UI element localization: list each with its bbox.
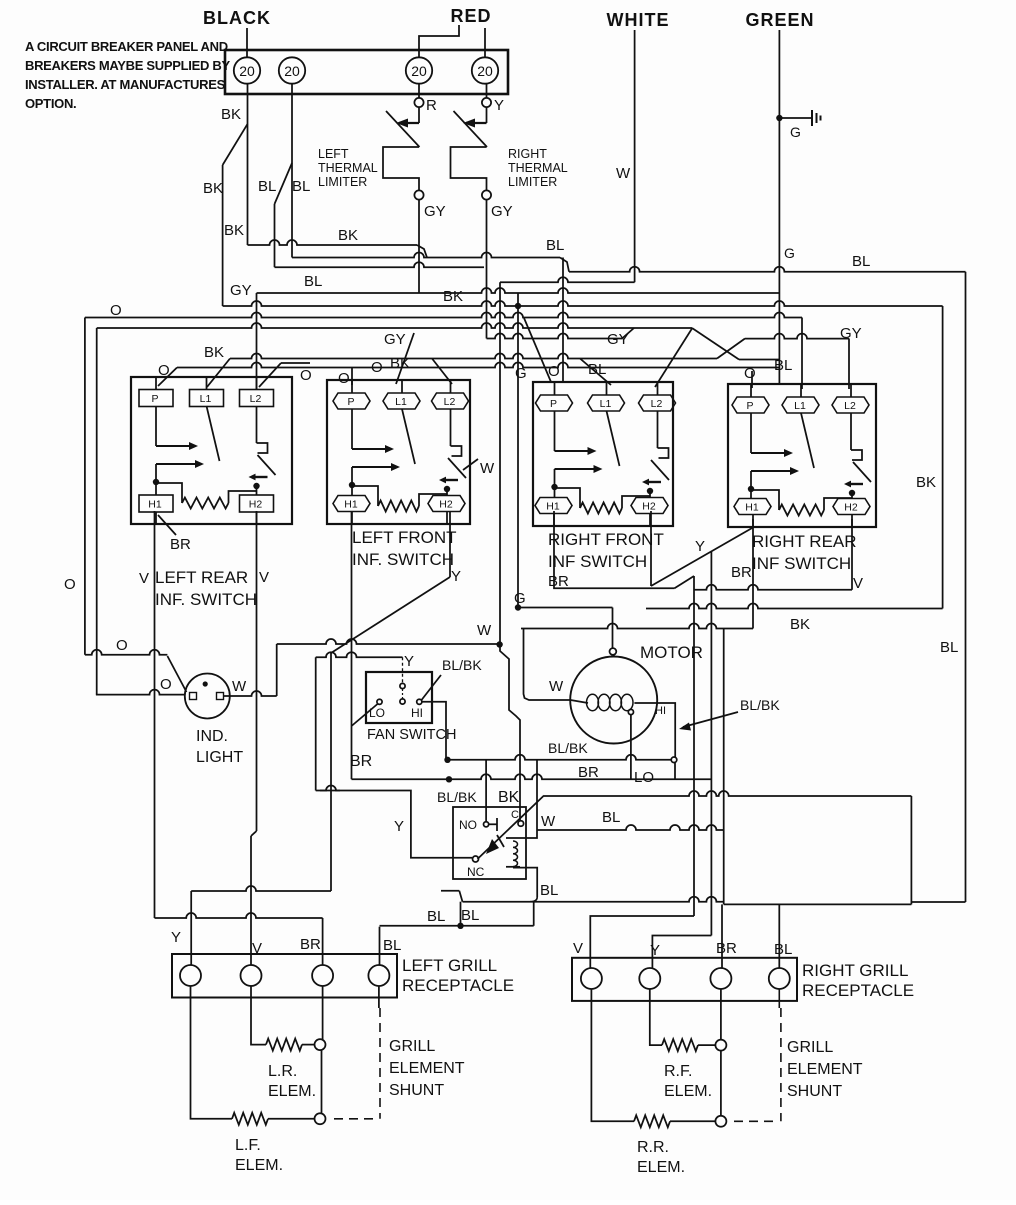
bus GY right extension — [745, 334, 849, 339]
junction dot BL/BK — [444, 757, 450, 763]
jog B down — [560, 258, 569, 272]
wire feed y363 L2 box1 — [281, 362, 310, 364]
svg-text:SHUNT: SHUNT — [787, 1083, 842, 1100]
wire BK right vertical — [942, 306, 944, 609]
terminal BL right receptacle — [769, 968, 790, 989]
svg-text:THERMAL: THERMAL — [318, 161, 378, 175]
ground symbol — [776, 110, 820, 126]
svg-text:O: O — [744, 365, 756, 382]
svg-text:H1: H1 — [745, 502, 759, 514]
label RIGHT FRONT INF SWITCH — [548, 530, 664, 590]
svg-text:L.F.: L.F. — [235, 1137, 261, 1154]
svg-text:W: W — [232, 678, 247, 695]
wire BK diagonal branch — [223, 124, 248, 165]
diag W stub — [463, 459, 478, 470]
relay blade cross — [497, 835, 504, 847]
wire BR feed right receptacle — [721, 904, 723, 968]
diag feed L1 box1 — [207, 359, 230, 388]
svg-text:BL/BK: BL/BK — [548, 740, 588, 756]
terminal V left receptacle — [241, 965, 262, 986]
wire H1 box3 down BR — [554, 511, 675, 588]
wire GY from right limiter down — [486, 200, 488, 339]
right thermal limiter bottom terminal — [482, 190, 491, 199]
label LEFT GRILL RECEPTACLE — [402, 956, 514, 995]
svg-text:P: P — [151, 393, 158, 405]
svg-text:ELEMENT: ELEMENT — [389, 1060, 465, 1077]
svg-text:BK: BK — [390, 355, 410, 372]
wire left edge O vertical — [84, 318, 86, 655]
wire BL delta up — [533, 902, 535, 926]
svg-text:Y: Y — [404, 653, 414, 670]
left thermal limiter bottom terminal — [414, 190, 423, 199]
svg-text:BL: BL — [258, 178, 276, 195]
wire H1 box1 down V — [154, 511, 156, 918]
svg-text:BR: BR — [170, 536, 191, 553]
svg-text:ELEM.: ELEM. — [268, 1083, 316, 1100]
label RIGHT GRILL RECEPTACLE — [802, 961, 914, 1000]
breaker 20A #4 — [472, 57, 498, 83]
bus BL segment to green — [739, 359, 779, 361]
svg-text:BL: BL — [588, 361, 606, 378]
wire BL to delta dot — [460, 902, 462, 926]
wire BR down to receptacle — [322, 918, 324, 966]
diag GY join F — [622, 328, 634, 339]
wire W/BL right vertical — [910, 796, 912, 904]
svg-text:L2: L2 — [844, 400, 856, 412]
wire G to motor — [515, 604, 613, 648]
svg-text:RIGHT: RIGHT — [508, 147, 547, 161]
wire Y feed right receptacle — [652, 936, 711, 969]
svg-text:Y: Y — [171, 929, 181, 946]
wire BL mid vertical — [723, 629, 725, 905]
left rear inf switch — [131, 377, 292, 524]
wire W bus to dot — [277, 639, 500, 644]
svg-text:G: G — [514, 590, 526, 607]
bus BL right line — [569, 267, 966, 272]
wire H2 box3 down Y — [650, 511, 652, 586]
svg-text:L1: L1 — [200, 393, 212, 405]
diag BR jog up — [675, 576, 695, 588]
wire Y long vertical — [330, 653, 332, 891]
diag BL/BK pointer — [422, 675, 442, 700]
junction dot W — [496, 641, 502, 647]
wire BL right edge vertical — [965, 272, 967, 902]
jog BL gamma — [459, 891, 462, 902]
svg-text:BK: BK — [498, 789, 520, 806]
svg-text:BR: BR — [300, 936, 321, 953]
bus O/E line upper — [85, 313, 802, 318]
terminal Y left receptacle — [180, 965, 201, 986]
svg-text:HI: HI — [655, 705, 666, 717]
svg-text:G: G — [790, 124, 801, 140]
fan switch pins — [377, 683, 422, 704]
svg-text:BL/BK: BL/BK — [437, 789, 477, 805]
wire shunt dashed left — [378, 986, 380, 1009]
svg-text:INF SWITCH: INF SWITCH — [548, 552, 647, 571]
left thermal limiter terminal R — [414, 98, 423, 107]
label GRILL ELEMENT SHUNT right — [787, 1039, 863, 1100]
bus Y feed line — [191, 886, 331, 891]
wire BL right connect — [911, 901, 965, 903]
svg-text:20: 20 — [284, 63, 300, 79]
wire RED lead into breaker 3 — [419, 25, 459, 58]
svg-text:W: W — [477, 622, 492, 639]
resistor L.F. ELEM — [232, 1113, 268, 1125]
svg-text:BL/BK: BL/BK — [442, 657, 482, 673]
left grill receptacle box — [172, 954, 397, 998]
wire LO fan down — [352, 704, 378, 726]
terminal Y right receptacle — [639, 968, 660, 989]
bus BK/G line y358 — [230, 354, 717, 359]
left front inf switch — [327, 380, 470, 524]
svg-text:O: O — [110, 302, 122, 319]
svg-text:L2: L2 — [651, 398, 663, 410]
right grill receptacle box — [572, 958, 797, 1001]
wire BL branch vertical — [274, 204, 276, 267]
label L.R. ELEM. — [268, 1063, 316, 1100]
svg-text:H2: H2 — [249, 499, 263, 511]
breaker 20A #1 — [234, 57, 260, 83]
diag feed L2 box3 — [655, 329, 692, 388]
svg-text:BL: BL — [852, 253, 870, 270]
diag Y up to H1 right rear — [651, 528, 753, 587]
svg-text:H1: H1 — [148, 499, 162, 511]
svg-text:GY: GY — [491, 203, 513, 220]
bus BL/BK line — [448, 755, 673, 760]
relay box — [453, 807, 526, 879]
svg-text:BL: BL — [304, 273, 322, 290]
svg-text:ELEM.: ELEM. — [235, 1157, 283, 1174]
svg-text:BK: BK — [221, 106, 241, 123]
breaker 20A #3 — [406, 57, 432, 83]
svg-text:P: P — [746, 400, 753, 412]
svg-text:R.F.: R.F. — [664, 1063, 692, 1080]
wire BR column left — [322, 986, 324, 1040]
svg-text:GY: GY — [230, 282, 252, 299]
wire relay blade W out — [544, 791, 911, 796]
svg-text:Y: Y — [494, 97, 504, 114]
wire breaker4 to Y — [486, 84, 488, 98]
svg-text:BR: BR — [350, 753, 372, 770]
label IND. LIGHT — [196, 728, 243, 766]
svg-text:G: G — [515, 365, 527, 382]
svg-text:L.R.: L.R. — [268, 1063, 297, 1080]
svg-text:P: P — [550, 398, 557, 410]
wire BL to left receptacle — [379, 927, 381, 966]
svg-text:BK: BK — [443, 288, 463, 305]
bus BL line B — [292, 253, 560, 258]
svg-text:RECEPTACLE: RECEPTACLE — [802, 981, 914, 1000]
svg-text:V: V — [853, 575, 863, 592]
svg-text:INF. SWITCH: INF. SWITCH — [155, 590, 257, 609]
motor — [570, 648, 657, 743]
svg-text:BL: BL — [427, 908, 445, 925]
wire O feed line lower — [96, 690, 185, 695]
svg-text:Y: Y — [394, 818, 404, 835]
svg-text:SHUNT: SHUNT — [389, 1082, 444, 1099]
wire feed P box2 — [351, 368, 353, 386]
resistor R.R. ELEM — [634, 1115, 670, 1127]
svg-text:ELEMENT: ELEMENT — [787, 1061, 863, 1078]
wire feed box3 vertical x563 — [562, 258, 564, 383]
terminal V right receptacle — [581, 968, 602, 989]
svg-text:L1: L1 — [395, 396, 407, 408]
bus F line lower — [97, 323, 692, 328]
svg-text:LO: LO — [634, 769, 654, 786]
wire HI to BR bus — [674, 763, 676, 780]
svg-text:WHITE: WHITE — [607, 10, 670, 30]
svg-text:BR: BR — [578, 764, 599, 781]
motor LO tap — [628, 709, 633, 714]
svg-text:BL: BL — [940, 639, 958, 656]
diag feed L2 box2 — [432, 359, 452, 385]
wire H1 box4 down — [752, 519, 754, 629]
svg-text:ELEM.: ELEM. — [664, 1083, 712, 1100]
svg-text:RIGHT GRILL: RIGHT GRILL — [802, 961, 908, 980]
wire V right rear to left — [694, 585, 852, 590]
svg-text:THERMAL: THERMAL — [508, 161, 568, 175]
svg-text:H1: H1 — [546, 501, 560, 513]
diag F down right — [692, 328, 739, 360]
terminal circle RR — [715, 1116, 726, 1127]
wire O feed line upper — [85, 650, 167, 655]
wire V to LR element — [251, 986, 266, 1045]
svg-text:BL/BK: BL/BK — [740, 697, 780, 713]
bus BK main line — [223, 301, 943, 306]
svg-text:GY: GY — [840, 325, 862, 342]
svg-text:RED: RED — [450, 6, 491, 26]
motor HI tap — [651, 703, 675, 757]
wire BL diagonal branch — [275, 163, 293, 204]
terminal circle HI wire — [671, 757, 677, 763]
svg-text:BK: BK — [224, 222, 244, 239]
svg-text:L1: L1 — [794, 400, 806, 412]
svg-text:O: O — [300, 367, 312, 384]
left thermal limiter — [383, 107, 420, 190]
svg-text:GY: GY — [384, 331, 406, 348]
svg-text:L2: L2 — [444, 396, 456, 408]
wire L1 box4 feed — [801, 318, 803, 390]
wire breaker3 to R — [418, 84, 420, 98]
bus W line — [500, 277, 635, 282]
bus BL gamma upper — [441, 890, 459, 892]
svg-text:C: C — [511, 809, 519, 821]
svg-text:LEFT FRONT: LEFT FRONT — [352, 528, 457, 547]
wire GREEN lead down — [778, 30, 780, 385]
wire coil bottom BL — [513, 868, 537, 897]
wire L2 box4 feed — [848, 339, 850, 390]
svg-text:LIGHT: LIGHT — [196, 749, 243, 766]
svg-text:W: W — [541, 813, 556, 830]
svg-text:O: O — [160, 676, 172, 693]
diag feed L1 box2 — [396, 333, 414, 384]
svg-text:H1: H1 — [344, 499, 358, 511]
svg-text:O: O — [116, 637, 128, 654]
svg-text:GY: GY — [424, 203, 446, 220]
wire H1 box2 down BR — [351, 511, 353, 779]
breaker 20A #2 — [279, 57, 305, 83]
wire H2 box1 down V — [256, 511, 258, 831]
svg-text:GRILL: GRILL — [389, 1038, 435, 1055]
relay NO contact — [459, 818, 497, 832]
junction dot G tap — [515, 303, 521, 309]
wire BR/V vertical to right receptacle — [693, 576, 695, 916]
svg-text:BK: BK — [204, 344, 224, 361]
diag feed L1 box3 — [580, 359, 611, 386]
wire G vertical — [517, 293, 519, 608]
diag feed P box3 — [524, 318, 551, 382]
label LEFT FRONT INF. SWITCH — [352, 528, 457, 569]
bus BR line — [352, 774, 712, 779]
junction dot BL delta — [457, 923, 463, 929]
diag feed P box1 — [158, 368, 177, 387]
svg-text:H2: H2 — [642, 501, 656, 513]
svg-text:O: O — [64, 576, 76, 593]
wire V to RR element — [591, 989, 634, 1121]
junction dot BR bus — [446, 776, 452, 782]
terminal BR left receptacle — [312, 965, 333, 986]
svg-text:A CIRCUIT BREAKER PANEL AND: A CIRCUIT BREAKER PANEL AND — [25, 39, 228, 54]
svg-text:H2: H2 — [844, 502, 858, 514]
svg-text:LIMITER: LIMITER — [508, 175, 557, 189]
wire BK from breaker 1 — [247, 84, 249, 245]
bus BL gamma — [463, 897, 724, 902]
svg-text:RIGHT REAR: RIGHT REAR — [752, 532, 857, 551]
diag bus jog to L2 box4 — [717, 339, 745, 359]
right front inf switch — [533, 382, 673, 526]
wire W to relay coil — [500, 645, 520, 821]
indicator light — [185, 674, 230, 719]
svg-text:BL: BL — [774, 941, 792, 958]
svg-text:BK: BK — [916, 474, 936, 491]
svg-text:BL: BL — [540, 882, 558, 899]
svg-text:Y: Y — [451, 568, 461, 585]
wire Y down to receptacle — [190, 891, 192, 966]
svg-text:LIMITER: LIMITER — [318, 175, 367, 189]
svg-text:Y: Y — [695, 538, 705, 555]
wire BK left vertical — [222, 165, 224, 306]
circuit breaker panel box — [225, 50, 508, 94]
svg-text:W: W — [616, 165, 631, 182]
bus GY from right limiter — [487, 334, 623, 339]
jog A to B — [417, 245, 427, 258]
wire HI fan to junction — [422, 702, 446, 758]
wire GY from left limiter down — [418, 200, 420, 293]
svg-text:20: 20 — [477, 63, 493, 79]
svg-text:LEFT GRILL: LEFT GRILL — [402, 956, 497, 975]
svg-text:BREAKERS MAYBE SUPPLIED BY: BREAKERS MAYBE SUPPLIED BY — [25, 58, 230, 73]
svg-text:GREEN: GREEN — [745, 10, 814, 30]
wire Y to LF element — [191, 986, 233, 1119]
svg-text:RECEPTACLE: RECEPTACLE — [402, 976, 514, 995]
svg-text:20: 20 — [411, 63, 427, 79]
svg-text:NC: NC — [467, 865, 485, 879]
wire V feed right receptacle — [590, 916, 694, 968]
label R.R. ELEM. — [637, 1139, 685, 1176]
label LEFT THERMAL LIMITER — [318, 147, 378, 189]
svg-text:W: W — [549, 678, 564, 695]
label LEFT REAR INF. SWITCH — [155, 568, 257, 609]
svg-text:BL: BL — [292, 178, 310, 195]
right thermal limiter — [451, 107, 488, 190]
svg-text:LEFT: LEFT — [318, 147, 349, 161]
svg-text:V: V — [139, 570, 149, 587]
bus line y628 — [521, 624, 753, 629]
wire H2 box4 down V — [851, 519, 853, 590]
right rear inf switch — [728, 384, 876, 527]
svg-text:GRILL: GRILL — [787, 1039, 833, 1056]
svg-text:R.R.: R.R. — [637, 1139, 669, 1156]
svg-text:L1: L1 — [600, 398, 612, 410]
wire W from ind light — [224, 691, 277, 696]
svg-text:HI: HI — [411, 706, 423, 720]
wire BL line y904 — [724, 903, 912, 905]
label RIGHT REAR INF SWITCH — [752, 532, 857, 573]
wire Y feed to fan switch — [316, 652, 403, 657]
svg-text:RIGHT FRONT: RIGHT FRONT — [548, 530, 664, 549]
svg-text:W: W — [480, 460, 495, 477]
svg-text:ELEM.: ELEM. — [637, 1159, 685, 1176]
wire Y dash to fan pin — [402, 657, 404, 683]
wire V jog — [251, 831, 257, 836]
bump on Y line — [320, 786, 340, 791]
terminal BL left receptacle — [368, 965, 389, 986]
bus line C — [275, 262, 485, 267]
svg-text:BR: BR — [731, 564, 752, 581]
label R.F. ELEM. — [664, 1063, 712, 1100]
svg-text:O: O — [338, 370, 350, 387]
wire left edge O vertical 2 — [96, 328, 98, 695]
wire motor LO down — [630, 715, 632, 780]
svg-text:BL: BL — [602, 809, 620, 826]
wire WHITE lead down — [634, 30, 636, 282]
svg-text:O: O — [371, 359, 383, 376]
svg-text:BK: BK — [790, 616, 810, 633]
svg-text:FAN SWITCH: FAN SWITCH — [367, 727, 456, 743]
svg-text:BL: BL — [383, 937, 401, 954]
svg-text:BK: BK — [203, 180, 223, 197]
bus BL delta — [380, 925, 534, 927]
terminal BR right receptacle — [710, 968, 731, 989]
svg-text:V: V — [573, 940, 583, 957]
wire Y to NC — [316, 791, 472, 858]
svg-text:INSTALLER. AT MANUFACTURES: INSTALLER. AT MANUFACTURES — [25, 77, 226, 92]
svg-text:Y: Y — [650, 942, 660, 959]
svg-text:V: V — [259, 569, 269, 586]
wire stub above breaker 4 — [484, 28, 486, 58]
terminal circle LR — [315, 1039, 326, 1050]
svg-text:MOTOR: MOTOR — [640, 643, 703, 662]
bus BK breaker1 line A — [248, 240, 418, 245]
diag feed L2 box1 — [259, 363, 281, 387]
terminal circle RF — [715, 1040, 726, 1051]
bus BL y830 — [537, 825, 724, 830]
diag BR stub box1 — [158, 515, 176, 535]
resistor L.R. ELEM — [266, 1039, 302, 1051]
svg-text:LEFT REAR: LEFT REAR — [155, 568, 248, 587]
diag BL/BK motor arrow — [683, 712, 738, 727]
svg-text:G: G — [784, 245, 795, 261]
wire shunt dashed right — [778, 989, 780, 1008]
label RIGHT THERMAL LIMITER — [508, 147, 568, 189]
svg-text:BLACK: BLACK — [203, 8, 271, 28]
wire BLACK lead into breaker 1 — [246, 28, 248, 58]
svg-text:BL: BL — [546, 237, 564, 254]
wire P box4 feed — [751, 371, 753, 388]
bus BR feed line — [155, 913, 323, 918]
terminal circle LF — [315, 1113, 326, 1124]
wire Y vertical to right receptacle — [710, 551, 712, 935]
